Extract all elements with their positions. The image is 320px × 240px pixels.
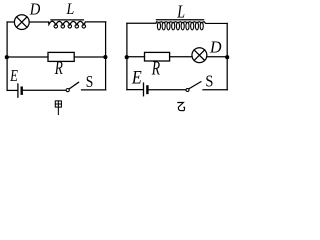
svg-text:S: S (205, 72, 213, 90)
label R (right resistor) (151, 57, 160, 79)
node: junction dot right (right loop, middle branch) (225, 55, 229, 59)
switch S (left): pivot circle (66, 89, 69, 92)
label D (right lamp) (209, 37, 222, 57)
label L (right inductor) (176, 3, 185, 22)
svg-text:L: L (66, 2, 75, 19)
wire: switch to bottom-right corner (right) (203, 89, 227, 91)
battery E (left): long plate (17, 84, 19, 97)
wire: top-left segment to inductor (127, 22, 156, 24)
resistor R (right) (145, 52, 170, 61)
inductor L1 core line (51, 19, 84, 21)
wire: top-left segment to lamp D (7, 21, 14, 23)
wire: switch to bottom-right corner (82, 89, 106, 91)
switch S (right): blade (189, 82, 201, 89)
svg-text:D: D (29, 1, 41, 19)
label E (left battery) (9, 68, 18, 86)
label D (left lamp) (29, 1, 41, 19)
inductor L1 curls (54, 25, 86, 29)
wire: middle branch to resistor (127, 56, 145, 58)
label R (left resistor) (54, 57, 63, 79)
label S (left switch) (86, 73, 94, 92)
wire: bottom-left segment to battery (7, 89, 17, 91)
node: junction dot left (right loop, middle branch) (125, 55, 129, 59)
label E (right battery) (131, 66, 142, 88)
switch S (right): pivot circle (186, 89, 189, 92)
inductor L1 coil (49, 21, 106, 25)
svg-text:E: E (131, 66, 142, 88)
label L (left inductor) (66, 2, 75, 19)
wire: battery to switch (23, 89, 66, 91)
svg-text:E: E (9, 68, 18, 86)
wire: resistor to lamp (170, 56, 192, 58)
svg-text:S: S (86, 73, 94, 92)
wire: right vertical of right loop (226, 23, 228, 89)
lamp D (right, circle with X) (192, 48, 207, 63)
wire: left vertical of left loop (6, 22, 8, 90)
wire: middle branch left segment (7, 56, 48, 58)
battery E (left): short thick plate (21, 88, 23, 94)
switch S (left): blade (69, 82, 78, 89)
wire: battery to switch (right) (149, 89, 186, 91)
wire: lamp to inductor (29, 21, 48, 23)
wire: left vertical of right loop (126, 23, 128, 89)
wire: middle branch right segment (74, 56, 105, 58)
resistor R (left) (48, 52, 74, 61)
svg-text:R: R (54, 57, 63, 79)
node: junction dot right (left loop, middle branch) (103, 55, 107, 59)
node: junction dot left (left loop, middle branch) (5, 55, 9, 59)
inductor L2 core line (156, 19, 203, 21)
wire: lamp to right vertical (207, 56, 227, 58)
wire: right vertical of left loop (105, 22, 107, 90)
svg-text:L: L (176, 3, 185, 22)
wire: bottom-left segment to battery (right) (127, 89, 143, 91)
label jia (Chinese) (55, 101, 61, 115)
inductor L2 coil (157, 22, 203, 30)
svg-text:R: R (151, 57, 160, 79)
label yi (Chinese) (177, 103, 184, 111)
battery E (right): short thick plate (146, 86, 148, 93)
lamp D (circle with X) (14, 15, 29, 30)
svg-text:D: D (209, 37, 222, 57)
battery E (right): long plate (143, 83, 145, 96)
label S (right switch) (205, 72, 213, 90)
